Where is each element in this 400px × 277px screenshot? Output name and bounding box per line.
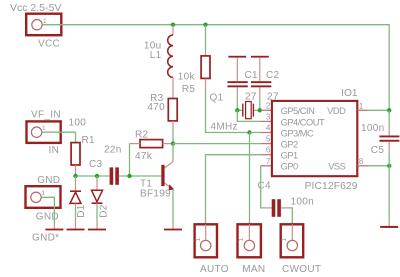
node pin4 junction [247,130,251,134]
svg-text:100: 100 [69,118,87,129]
connector GND [26,186,61,222]
svg-text:VSS: VSS [328,162,345,172]
svg-text:Q1: Q1 [210,93,224,104]
svg-text:4: 4 [266,124,271,133]
svg-text:7: 7 [266,157,271,166]
node collector junction [171,141,175,145]
svg-text:GND*: GND* [32,233,59,244]
inductor L1 10u [144,25,173,99]
svg-text:47k: 47k [135,151,153,162]
svg-text:GP4/COUT: GP4/COUT [281,117,325,127]
ground D2 [88,229,106,231]
node crystal right [258,108,262,112]
wire R5 bottom to pin4 [206,90,250,133]
node base junction [127,174,131,178]
connector AUTO [195,224,229,274]
ground C5 rail [380,226,398,228]
capacitor C5 100n [361,110,399,166]
resistor R5 10k [178,25,210,95]
pin stub GP1 pin6 [261,154,272,156]
ground D1 [67,229,85,231]
svg-text:4MHz: 4MHz [211,122,238,133]
svg-text:C3: C3 [89,159,103,170]
node junction R5 top [203,23,207,27]
resistor R2 47k [130,129,174,162]
svg-text:1: 1 [195,238,202,242]
svg-text:8: 8 [359,157,364,166]
svg-text:MAN: MAN [242,264,265,275]
node VSS [387,164,391,168]
wire R2 left down to base node [129,144,131,176]
svg-text:GND: GND [37,175,60,186]
pin stub GP5 pin2 [261,109,272,111]
svg-text:1: 1 [43,18,47,25]
node crystal left [235,108,239,112]
svg-text:CWOUT: CWOUT [282,264,321,275]
svg-text:D2: D2 [98,204,109,218]
svg-text:D1: D1 [76,204,87,218]
capacitor C4 100n [258,181,314,217]
svg-text:R5: R5 [182,84,196,95]
ground C1 top [228,56,246,58]
pin stub VSS pin8 [357,165,368,167]
ground GND* [45,229,63,231]
svg-text:C5: C5 [371,145,385,156]
svg-text:3: 3 [266,112,271,121]
capacitor C2 27 [251,58,280,103]
node R1 bottom [73,174,77,178]
connector VCC [26,14,61,50]
resistor R1 100 [69,118,96,177]
svg-text:1: 1 [238,238,245,242]
svg-text:R2: R2 [135,129,149,140]
wire node to GP2 pin5 [173,143,261,145]
pin stub GP0 pin7 [261,165,272,167]
svg-text:1: 1 [42,125,46,132]
svg-text:C1: C1 [245,70,259,81]
wire signal row [76,175,107,177]
svg-text:IO1: IO1 [341,88,358,99]
pin numbers left [266,101,271,166]
svg-text:VDD: VDD [327,106,346,116]
ground C2 top [251,56,269,58]
svg-text:GP5/CIN: GP5/CIN [281,106,315,116]
node D2 top [95,174,99,178]
wire emitter to ground [172,190,174,224]
connector MAN [238,224,266,274]
node VDD [387,108,391,112]
ground T1 emitter [164,229,182,231]
svg-text:R1: R1 [82,135,96,146]
wire pin4 [250,132,261,134]
wire MAN vertical [249,133,251,225]
svg-text:27: 27 [245,91,257,102]
svg-text:2: 2 [266,101,271,110]
svg-text:1: 1 [359,102,364,111]
capacitor C1 27 [227,58,258,103]
svg-text:BF199: BF199 [140,188,171,199]
svg-text:1: 1 [42,190,46,197]
wire C3 to base [124,175,161,177]
svg-text:IN: IN [49,145,60,156]
wire C1 to crystal node [236,99,238,110]
svg-text:5: 5 [266,135,271,144]
pin stub GP3 pin4 [261,132,272,134]
svg-text:100n: 100n [361,123,384,134]
svg-text:6: 6 [266,146,271,155]
wire C2 to crystal node [259,99,261,110]
svg-text:GND: GND [36,212,59,223]
wire VF_IN to R1 [42,132,76,142]
transistor Q T1 BF199 [140,158,174,200]
svg-text:AUTO: AUTO [200,264,229,275]
capacitor C3 22n [89,145,124,185]
wire GND connector to ground [41,197,54,224]
resistor R3 470 [147,93,177,128]
svg-text:GP3/MC: GP3/MC [281,128,314,138]
svg-text:Vcc 2.5-5V: Vcc 2.5-5V [10,2,61,14]
svg-text:22n: 22n [104,145,122,156]
wire VSS to rail [368,165,389,167]
svg-text:L1: L1 [150,50,162,61]
connector VF_IN [27,121,61,155]
svg-text:GP1: GP1 [281,151,298,161]
diode D1 [70,176,87,229]
wire VSS rail down [388,166,390,222]
svg-text:C2: C2 [266,70,280,81]
pin stub VDD pin1 [357,109,368,111]
wire VDD to rail [368,109,389,111]
svg-text:VCC: VCC [38,39,60,50]
crystal Q1 4MHz [210,93,261,133]
node junction L1 top [171,23,175,27]
wire GP0 pin7 down to C4 [261,166,267,208]
diode D2 [92,176,110,229]
svg-text:VF_IN: VF_IN [31,110,61,121]
IC U IO1 PIC12F629 [272,88,358,192]
wire node to collector [172,144,174,158]
svg-text:PIC12F629: PIC12F629 [305,181,358,192]
pin stub GP2 pin5 [261,143,272,145]
connector CWOUT [281,224,322,274]
svg-text:10k: 10k [178,71,196,82]
pin stub GP4 pin3 [261,120,272,122]
svg-text:GP0: GP0 [281,162,298,172]
svg-text:GP2: GP2 [281,140,298,150]
svg-text:100n: 100n [291,197,314,208]
svg-text:C4: C4 [258,181,272,192]
svg-text:470: 470 [147,102,165,113]
wire C4 to CWOUT [287,208,292,224]
svg-text:1: 1 [281,238,288,242]
wire R3 to node [172,128,174,144]
wire VCC rail top [42,25,389,111]
wire crystal left to pin3 [237,110,260,121]
wire AUTO to GP1 pin6 [206,155,261,225]
